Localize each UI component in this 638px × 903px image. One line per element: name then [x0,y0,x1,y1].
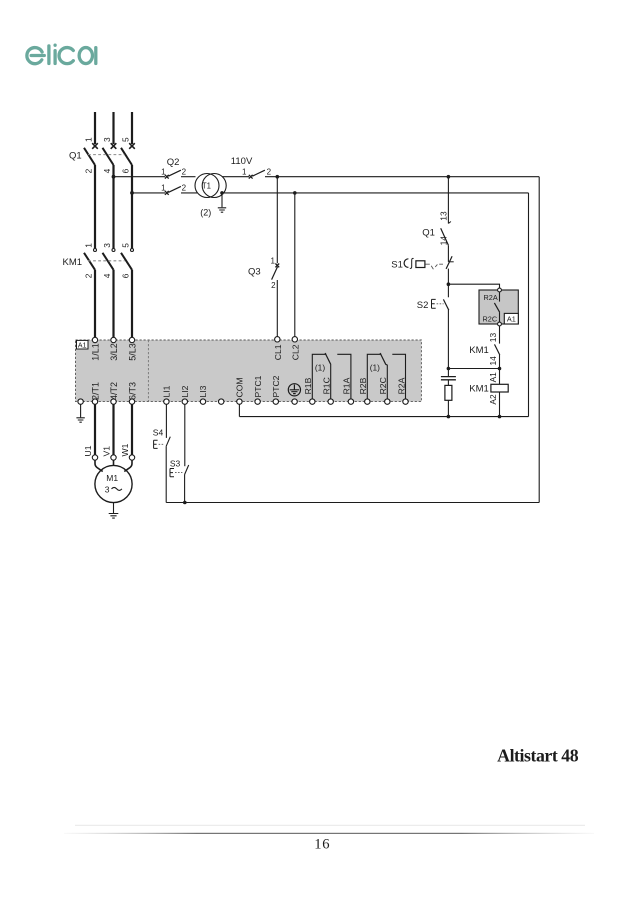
transformer T1 [195,174,219,198]
svg-text:1: 1 [271,257,276,266]
svg-text:R1A: R1A [342,377,352,394]
rotated pin number labels [83,137,498,405]
svg-text:A1: A1 [488,372,498,383]
svg-text:A1: A1 [78,343,87,350]
wire inner loop right side [528,193,530,417]
label motor AC tilde [112,487,122,490]
wire CL2 drop [294,193,296,337]
terminal 1/L1 [92,337,97,342]
wire phase L2 supply [112,112,114,144]
breaker Q1 auxiliary contact 13-14 [447,177,449,224]
svg-text:2: 2 [182,184,187,193]
earth symbol in circle [288,384,300,396]
terminal 4/T2 [111,399,116,404]
wire KM1 to starter L1 [94,270,96,337]
svg-text:S1: S1 [391,259,403,270]
wire Q1 to KM1 phase L1 [94,165,96,248]
svg-text:PTC2: PTC2 [271,375,281,397]
relay contact R1 internal [312,354,326,399]
svg-text:13: 13 [438,211,448,221]
svg-text:1: 1 [83,137,93,142]
terminal PTC2 [273,399,278,404]
svg-text:A2: A2 [488,394,498,405]
svg-text:R2C: R2C [483,314,498,323]
terminal LI3 [200,399,205,404]
svg-text:LI3: LI3 [198,385,208,397]
breaker 110V contact [249,175,253,179]
node CL1 tap [276,175,280,179]
wire starter to motor V1 [112,404,114,455]
svg-text:6: 6 [120,273,130,278]
wire control feed upper (110V primary) [114,176,166,178]
svg-text:2: 2 [182,167,187,176]
svg-text:KM1: KM1 [469,383,489,394]
svg-text:R2A: R2A [484,293,498,302]
circuit breaker Q1 [92,143,135,149]
ground T1 (2) [218,208,226,212]
pushbutton S3 on LI2 [184,404,186,466]
wire phase L3 supply [131,112,133,144]
terminal LI1 [164,399,169,404]
terminal W1 [129,455,134,460]
node branch left [447,367,451,371]
terminal PTC1 [255,399,260,404]
pushbutton S4 on LI1 [165,404,167,438]
wire Q1 to KM1 phase L3 [131,165,133,248]
breaker Q3 [275,264,279,268]
terminal 2/T1 [92,399,97,404]
wire outer loop bottom [166,502,539,504]
svg-text:M1: M1 [106,473,118,483]
svg-text:2: 2 [83,273,93,278]
breaker Q2 pole 2 [165,191,169,195]
wire COM drop [238,404,240,416]
node rail right [498,415,502,419]
svg-text:13: 13 [488,333,498,343]
svg-text:KM1: KM1 [469,345,489,356]
svg-text:1/L1: 1/L1 [90,343,100,361]
svg-text:14: 14 [438,236,448,246]
svg-text:3/L2: 3/L2 [109,343,119,361]
resistor (RC snubber) [445,385,452,400]
svg-text:T1: T1 [202,181,211,190]
svg-text:6/T3: 6/T3 [127,382,137,400]
svg-text:16: 16 [314,836,330,852]
node CL2 tap [293,191,297,195]
relay block R2A/R2C of starter [479,290,518,324]
contactor KM1 power poles [94,249,134,252]
terminal earth circle [292,399,297,404]
svg-text:R2B: R2B [358,377,368,394]
node control tap L2 [112,175,116,179]
svg-text:3: 3 [102,137,112,142]
wire outer loop right side [538,177,540,503]
svg-text:2: 2 [271,281,276,290]
node rail left [447,415,451,419]
svg-text:(1): (1) [370,363,380,373]
svg-text:3: 3 [105,484,110,494]
terminal R2B [365,399,370,404]
svg-text:5: 5 [120,137,130,142]
svg-text:R2C: R2C [378,377,388,394]
svg-text:COM: COM [235,377,245,397]
svg-text:Q2: Q2 [167,157,180,168]
svg-text:3: 3 [102,243,112,248]
svg-text:1: 1 [242,167,247,176]
soft starter block A1 [76,340,422,402]
svg-text:V1: V1 [102,446,112,457]
wire T1 earth branch [221,193,223,207]
svg-text:R2A: R2A [396,377,406,394]
terminal V1 [111,455,116,460]
wire control feed lower [132,192,165,194]
svg-text:1: 1 [161,167,166,176]
terminal spare [219,399,224,404]
terminal 5/L3 [129,337,134,342]
svg-text:1: 1 [161,184,166,193]
svg-text:Altistart 48: Altistart 48 [497,745,579,765]
wire Q1 to KM1 phase L2 [112,165,114,248]
svg-text:2: 2 [83,168,93,173]
terminal R1A [348,399,353,404]
svg-text:CL1: CL1 [273,344,283,360]
capacitor (RC snubber) [447,369,449,377]
breaker Q2 pole 1 [165,175,169,179]
svg-text:S2: S2 [417,300,429,311]
svg-text:R1B: R1B [303,377,313,394]
svg-text:W1: W1 [120,443,130,456]
svg-text:6: 6 [120,168,130,173]
svg-text:KM1: KM1 [63,257,83,268]
terminal CL2 [292,337,297,342]
terminal R1C [328,399,333,404]
node S3 junction [183,501,187,505]
svg-text:Q3: Q3 [248,266,261,277]
wire top rail to outer loop [265,176,539,178]
ground motor [113,503,115,514]
node S1 junction [447,282,451,286]
schematic text labels [63,151,489,395]
svg-text:S4: S4 [153,428,164,438]
svg-text:R1C: R1C [322,377,332,394]
terminal R2A [403,399,408,404]
wire branch to R2A relay [448,284,499,288]
svg-text:(1): (1) [315,363,325,373]
svg-text:14: 14 [488,356,498,366]
svg-text:4/T2: 4/T2 [109,382,119,400]
svg-text:U1: U1 [83,445,93,456]
motor M1 [95,465,132,502]
svg-text:(2): (2) [200,208,211,218]
rotated terminal labels [83,343,406,456]
svg-text:5: 5 [120,243,130,248]
svg-text:2: 2 [267,167,272,176]
Elica logo [27,45,96,63]
svg-text:PTC1: PTC1 [253,375,263,397]
wire KM1 to starter L2 [112,270,114,337]
svg-text:LI2: LI2 [180,385,190,397]
wire KM1 to starter L3 [131,270,133,337]
svg-text:1: 1 [83,243,93,248]
node branch right [498,367,502,371]
svg-text:CL2: CL2 [290,344,300,360]
svg-text:Q1: Q1 [422,228,435,239]
svg-text:4: 4 [102,168,112,173]
svg-text:2/T1: 2/T1 [90,382,100,400]
svg-text:110V: 110V [231,156,253,167]
relay contact R2 internal [367,354,381,399]
node T1 earth tap [220,191,224,195]
svg-text:LI1: LI1 [162,385,172,397]
terminal 6/T3 [129,399,134,404]
terminal COM [237,399,242,404]
terminal R1B [310,399,315,404]
pushbutton S1 (emergency stop NC) [448,261,453,263]
wire control bottom rail [239,416,528,418]
wire starter to motor U1 [94,404,96,455]
contactor KM1 auxiliary contact 13-14 [499,326,501,344]
terminal CL1 [275,337,280,342]
svg-text:Q1: Q1 [69,151,82,162]
terminal LI2 [182,399,187,404]
svg-text:5/L3: 5/L3 [127,343,137,361]
wire phase L1 supply [94,112,96,144]
wire T1 secondary bottom rail [224,192,529,194]
node control tap L3 [130,191,134,195]
terminal earth left [78,399,83,404]
svg-text:A1: A1 [507,315,516,324]
wire starter to motor W1 [131,404,133,455]
terminal R2C [385,399,390,404]
wire T1 secondary top [222,176,249,178]
svg-text:S3: S3 [170,458,181,468]
wire CL1 drop [276,177,278,264]
node control line tap [447,175,451,179]
terminal U1 [92,455,97,460]
coil KM1 [499,369,501,385]
terminal 3/L2 [111,337,116,342]
wire RC branch [448,368,499,370]
pushbutton S2 (start NO) [447,284,449,297]
svg-text:4: 4 [102,273,112,278]
ground block left [80,404,82,417]
